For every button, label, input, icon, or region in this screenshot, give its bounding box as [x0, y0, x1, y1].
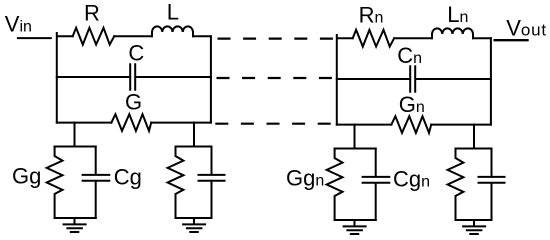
svg-text:R: R: [84, 1, 100, 26]
svg-text:L: L: [167, 0, 179, 24]
wire Ln to top-right corner: [473, 37, 491, 39]
wire bottom rail right of G: [151, 122, 211, 124]
wire shunt A bottom bar: [55, 217, 96, 219]
inductor L: [152, 26, 193, 36]
resistor shunt D (unlabeled): [448, 149, 464, 221]
svg-text:Cgn: Cgn: [393, 167, 430, 192]
capacitor Cgn: [363, 149, 390, 221]
capacitor Cn: [410, 66, 415, 92]
wire between R and L: [114, 35, 152, 37]
svg-text:Ggn: Ggn: [286, 166, 324, 191]
svg-text:Vin: Vin: [5, 11, 32, 36]
dashed wire mid rail: [217, 77, 337, 79]
ground shunt C: [344, 220, 366, 234]
capacitor C: [130, 64, 135, 90]
wire mid rail left of Cn: [337, 78, 409, 80]
wire Vin lead: [18, 37, 51, 39]
inductor Ln: [432, 28, 473, 38]
svg-text:Rn: Rn: [359, 3, 384, 28]
wire stub to shunt B: [193, 123, 195, 147]
wire L to top-right corner: [193, 35, 211, 37]
svg-text:Gn: Gn: [399, 92, 425, 117]
svg-text:Gg: Gg: [12, 164, 41, 189]
node right box top-left corner: [337, 35, 353, 125]
capacitor Cg: [83, 147, 110, 219]
resistor shunt B (unlabeled): [168, 147, 184, 219]
wire shunt A top bar: [55, 146, 96, 148]
svg-text:Ln: Ln: [447, 2, 468, 27]
wire bottom rail right of Gn: [431, 124, 491, 126]
svg-text:C: C: [128, 41, 144, 66]
wire left box right vertical: [210, 36, 212, 122]
svg-text:Vout: Vout: [506, 15, 547, 40]
wire stub to shunt A: [74, 123, 76, 147]
wire bottom rail left of Gn: [337, 124, 392, 126]
resistor Gg: [47, 147, 63, 219]
capacitor shunt B (unlabeled): [199, 147, 225, 219]
dashed wire top rail: [218, 37, 337, 39]
wire mid rail right of Cn: [416, 78, 491, 80]
wire shunt C top bar: [335, 148, 376, 150]
wire between Rn and Ln: [394, 37, 432, 39]
wire shunt B top bar: [176, 146, 212, 148]
resistor Gn: [391, 116, 431, 133]
node left box top-left corner / wire top rail: [57, 33, 73, 123]
wire shunt D bottom bar: [456, 219, 492, 221]
wire mid rail left of C: [57, 76, 129, 78]
wire right box right vertical: [490, 38, 492, 124]
wire shunt D top bar: [456, 148, 492, 150]
capacitor shunt D (unlabeled): [479, 149, 505, 221]
wire stub to shunt D: [473, 125, 475, 149]
resistor Rn: [353, 30, 395, 47]
svg-text:G: G: [125, 89, 142, 114]
wire shunt C bottom bar: [335, 219, 376, 221]
wire shunt B bottom bar: [176, 217, 212, 219]
ground shunt D: [463, 220, 485, 234]
ground shunt B: [183, 218, 205, 232]
resistor G: [111, 114, 151, 131]
resistor Ggn: [327, 149, 343, 221]
dashed wire bottom rail: [215, 123, 336, 125]
wire bottom rail left of G: [57, 122, 112, 124]
wire mid rail right of C: [136, 76, 211, 78]
svg-text:Cn: Cn: [397, 43, 422, 68]
wire stub to shunt C: [354, 125, 356, 149]
svg-text:Cg: Cg: [114, 165, 142, 190]
ground shunt A: [64, 218, 86, 232]
wire Vout lead: [494, 39, 529, 41]
resistor R: [73, 28, 115, 45]
